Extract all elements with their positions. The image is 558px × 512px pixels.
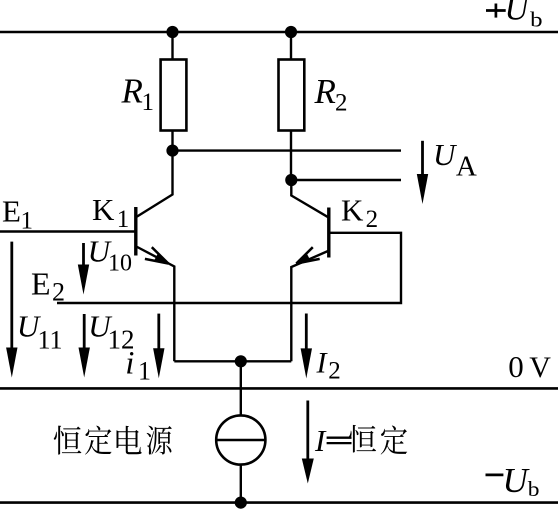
wire: node A to UA tap (upper) xyxy=(173,149,402,151)
svg-text:1: 1 xyxy=(142,89,155,116)
svg-text:2: 2 xyxy=(328,357,341,384)
wire: -Ub supply rail xyxy=(0,501,558,504)
svg-text:11: 11 xyxy=(38,325,63,354)
svg-text:R: R xyxy=(314,72,336,111)
arrow I (constant current) xyxy=(306,401,309,461)
label: constant power source (hengding dianyuan) xyxy=(54,426,172,455)
wire: R2 to node B xyxy=(290,131,292,181)
wire: +Ub supply rail xyxy=(0,31,558,34)
node: tail junction xyxy=(235,356,246,367)
svg-text:1: 1 xyxy=(117,206,130,233)
node: on -Ub rail xyxy=(235,497,246,508)
svg-text:I: I xyxy=(314,423,327,458)
svg-text:V: V xyxy=(529,351,551,384)
svg-text:b: b xyxy=(528,477,540,501)
svg-text:I: I xyxy=(316,347,329,380)
svg-text:U: U xyxy=(503,461,531,500)
arrow I2 xyxy=(305,314,308,351)
label +Ub xyxy=(486,9,506,12)
wire: top rail to R1 xyxy=(171,32,173,60)
wire: K2 base return to E2 line xyxy=(57,233,401,303)
node: R1 top junction xyxy=(167,26,178,37)
svg-text:K: K xyxy=(92,192,115,227)
svg-text:b: b xyxy=(530,7,542,31)
svg-text:U: U xyxy=(505,0,531,27)
wire: tail to current source xyxy=(240,361,242,416)
transistor K2 xyxy=(291,180,329,361)
svg-text:E: E xyxy=(2,193,21,228)
svg-text:2: 2 xyxy=(52,278,65,307)
node B: R2 / K2 collector junction xyxy=(286,174,297,185)
resistor R1 xyxy=(161,60,187,131)
arrow i1 xyxy=(157,314,160,351)
transistor K1 xyxy=(136,151,175,362)
wire: current source to -Ub rail xyxy=(240,465,242,503)
wire: R1 to node A xyxy=(171,131,173,151)
arrow U11 xyxy=(10,242,13,350)
resistor R2 xyxy=(279,60,305,131)
current source (constant current) xyxy=(216,415,265,464)
arrow UA (output voltage) xyxy=(421,141,424,176)
svg-text:1: 1 xyxy=(138,356,151,385)
wire: 0 V rail xyxy=(0,387,558,390)
wire: node B to UA tap (lower) xyxy=(291,179,401,181)
svg-text:K: K xyxy=(341,193,364,228)
node: R2 top junction xyxy=(285,26,296,37)
arrow U10 xyxy=(82,243,85,267)
svg-text:0: 0 xyxy=(508,349,524,384)
wire: top rail to R2 xyxy=(290,32,292,60)
svg-text:i: i xyxy=(125,346,134,382)
svg-text:E: E xyxy=(31,266,51,302)
svg-text:2: 2 xyxy=(335,90,348,117)
arrow U12 xyxy=(83,314,86,350)
node A: R1 / K1 collector junction xyxy=(167,145,178,156)
svg-text:2: 2 xyxy=(366,206,379,233)
wire: input E1 to K1 base xyxy=(0,230,136,232)
wire: emitter tail bus xyxy=(174,360,291,362)
svg-text:10: 10 xyxy=(108,251,132,277)
svg-text:U: U xyxy=(433,137,458,172)
svg-text:R: R xyxy=(121,71,143,110)
svg-text:A: A xyxy=(456,150,477,182)
svg-text:1: 1 xyxy=(21,208,34,235)
label -Ub xyxy=(486,473,504,476)
